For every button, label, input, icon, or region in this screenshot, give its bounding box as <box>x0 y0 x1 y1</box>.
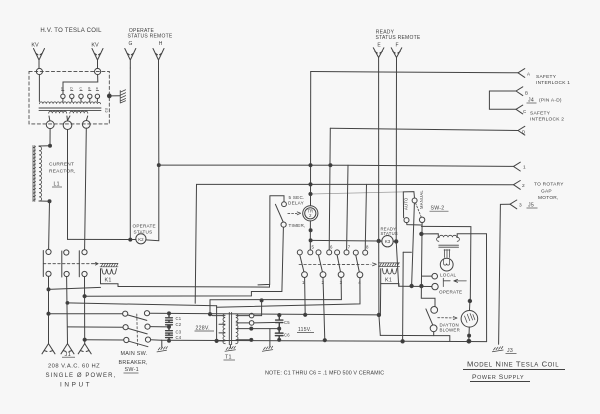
capacitor C4 <box>166 335 173 341</box>
antenna F <box>391 48 402 58</box>
selector arrow <box>454 279 467 282</box>
node F rail <box>401 340 404 343</box>
svg-text:STATUS REMOTE: STATUS REMOTE <box>375 35 420 41</box>
node C5 C6 mid <box>278 327 281 330</box>
node phase2 P2 <box>66 302 69 305</box>
svg-text:1: 1 <box>523 165 526 171</box>
wire contact1 common down <box>304 278 307 315</box>
bushing insulator left <box>36 68 42 74</box>
capacitor C3 <box>166 327 173 335</box>
svg-text:3: 3 <box>519 203 522 209</box>
wire H down to line1 junction <box>158 68 160 165</box>
svg-text:J4: J4 <box>528 98 534 104</box>
contact K1 pole3 top <box>82 250 87 255</box>
wire pole1 bottom down <box>48 276 50 343</box>
timer contact bottom <box>281 222 286 227</box>
wire sw2 feed <box>311 192 404 194</box>
wire local to sw2 node <box>422 275 432 277</box>
switch SW-2 manual contact <box>419 217 424 222</box>
svg-text:STATUS: STATUS <box>381 231 398 236</box>
wire TR2 bottom to contact5 <box>309 221 311 250</box>
node 115V on P1 <box>260 299 263 302</box>
capacitor C2 <box>166 322 173 327</box>
feedthrough terminal 2 <box>63 121 72 130</box>
wire manual common down <box>420 223 423 286</box>
contact block pole1 common <box>302 272 308 278</box>
svg-text:CURRENT: CURRENT <box>49 162 74 168</box>
node cap C1 top <box>168 312 171 315</box>
svg-text:G: G <box>129 41 133 47</box>
wire SW1 pole2 to caps <box>150 326 169 328</box>
timer relay TR2 inner <box>305 208 316 219</box>
ground stub caps <box>161 340 163 347</box>
svg-text:INTERLOCK 2: INTERLOCK 2 <box>530 117 564 123</box>
T1 primary tap bottom <box>217 340 225 342</box>
core ground dot on enclosure <box>107 94 111 98</box>
capacitor C1 <box>166 313 173 322</box>
tap circle 1 <box>61 94 65 101</box>
motor hatching <box>465 314 475 323</box>
node K3 F <box>395 240 398 243</box>
relay coil K3 ready status <box>382 236 393 247</box>
chassis ground wall <box>120 90 125 103</box>
node pole1 lower <box>47 288 50 291</box>
node motor rail <box>467 339 471 343</box>
wire reactor bottom to junction <box>39 200 50 202</box>
svg-text:SINGLE Ø POWER,: SINGLE Ø POWER, <box>46 373 117 379</box>
tap letter ticks <box>62 90 99 92</box>
svg-text:SAFETY: SAFETY <box>536 74 557 80</box>
svg-text:H.V. TO TESLA COIL: H.V. TO TESLA COIL <box>40 28 102 34</box>
wire E down <box>379 58 381 336</box>
secondary lead left <box>48 116 51 121</box>
wire SW1 pole3 to rail bottom <box>151 339 162 342</box>
wire P1 rail riser <box>209 300 211 314</box>
contact block pole4 top right <box>363 250 368 255</box>
svg-text:A: A <box>527 72 530 77</box>
svg-text:AUTO: AUTO <box>404 197 409 210</box>
connector pin 2 <box>514 181 521 190</box>
wire SW1 pole1 to rail <box>150 312 169 314</box>
svg-text:H: H <box>159 41 163 47</box>
wire A line <box>311 72 518 73</box>
switch SW-2 pole contact <box>412 198 417 203</box>
pilot lamp filament <box>444 259 450 265</box>
node phase3 P3 <box>83 295 86 298</box>
connector J1 pin2 <box>61 344 74 354</box>
svg-text:KV: KV <box>31 43 39 49</box>
svg-text:INTERLOCK 1: INTERLOCK 1 <box>536 80 570 86</box>
wire phase2 to SW1 pole2 <box>68 326 124 328</box>
wire B C jumper <box>489 91 516 109</box>
tap circle 4 <box>88 94 92 101</box>
wire line2 to chevron2 <box>197 183 514 185</box>
svg-text:K1: K1 <box>385 278 392 284</box>
node motor top link <box>468 299 471 302</box>
wire P2 pole2 to T1 <box>67 303 216 306</box>
relay coil K2 operate status <box>136 234 146 244</box>
feedthrough terminal 3 <box>82 121 90 129</box>
actuator arrow K1 left <box>93 262 98 265</box>
wire T1 drop to rail <box>216 306 218 341</box>
svg-text:DELAY: DELAY <box>288 201 304 206</box>
svg-text:E: E <box>61 87 63 91</box>
wire sec1 to 115V riser <box>254 301 262 316</box>
switch SW-1 gang dashed <box>136 314 139 346</box>
antenna KV right <box>92 49 103 69</box>
contact K1 pole1 bar <box>42 251 44 277</box>
T1 ground stub <box>229 345 231 348</box>
node reactor top <box>49 144 52 147</box>
svg-text:115V.: 115V. <box>298 327 312 333</box>
wire node to K1 left box <box>49 287 101 289</box>
wire P2 branch to contact4 <box>217 278 360 308</box>
T1 secondary tap3 <box>236 328 251 330</box>
wire phase1 down to K1 contact <box>48 201 51 249</box>
dayton blower motor <box>461 311 478 328</box>
node cap mid junction <box>168 325 171 328</box>
tap circle 5 <box>95 94 99 101</box>
svg-text:STATUS REMOTE: STATUS REMOTE <box>127 34 172 40</box>
wire K1 left box to timer riser <box>118 286 270 289</box>
svg-text:INPUT: INPUT <box>60 382 92 389</box>
connector J1 pin1 <box>42 344 55 354</box>
node reactor bottom <box>48 200 51 203</box>
T1 secondary tap1 <box>236 315 249 317</box>
wire blower bottom stub <box>433 332 435 336</box>
tap circle 2 <box>70 94 74 101</box>
wire big vertical from line2 <box>195 184 196 303</box>
current reactor L1 core <box>33 146 36 202</box>
switch SW-2 auto contact <box>404 218 409 223</box>
blower switch blade <box>426 309 433 325</box>
switch SW-1 pole1 <box>123 311 150 321</box>
feedthrough terminal 1 <box>46 121 54 129</box>
svg-text:GAP: GAP <box>541 189 552 195</box>
svg-text:J5: J5 <box>528 203 534 209</box>
wire T2 primary left lead <box>421 234 438 238</box>
wire rail 313 to T1 <box>169 313 379 315</box>
svg-text:B: B <box>88 87 90 91</box>
relay K1 right coil <box>382 268 397 274</box>
connector pin B <box>516 87 523 96</box>
wire terminal1 to reactor junction <box>49 129 51 146</box>
wire operate node to blower switch <box>421 286 435 306</box>
svg-text:MOTOR,: MOTOR, <box>538 195 559 201</box>
wire contact7 drop <box>347 165 348 250</box>
timer bracket <box>258 196 284 285</box>
transformer T1 core <box>229 312 231 344</box>
node phase1 rail <box>47 312 50 315</box>
contact block pole2 common <box>320 272 326 278</box>
svg-text:E2: E2 <box>104 108 108 113</box>
connector pin 3 <box>510 200 517 209</box>
contact block pole3 common <box>338 272 344 278</box>
wire timer riser join <box>269 284 271 287</box>
blower switch top contact <box>431 307 438 314</box>
wire F down <box>396 58 399 287</box>
contact block pole3 top left <box>335 250 340 255</box>
svg-text:SAFETY: SAFETY <box>530 111 551 117</box>
svg-text:C5: C5 <box>284 320 290 325</box>
timer relay TR2 outer <box>303 206 318 221</box>
contact block pole3 top right <box>344 250 349 255</box>
svg-text:BREAKER,: BREAKER, <box>119 360 149 366</box>
contact block pole1 top left <box>297 250 302 255</box>
antenna G <box>125 49 136 69</box>
wire junction to reactor top <box>39 145 50 147</box>
svg-text:2: 2 <box>522 183 525 189</box>
T1 secondary tap2 <box>236 322 249 324</box>
timer arrowhead <box>297 212 300 215</box>
svg-text:C3: C3 <box>176 330 182 335</box>
node rail contact1 <box>304 313 307 316</box>
wire auto common link <box>407 223 422 225</box>
node contact2 rail <box>323 339 326 342</box>
node C5 rail top <box>278 314 281 317</box>
svg-text:TO ROTARY: TO ROTARY <box>534 182 564 188</box>
svg-text:B: B <box>525 91 528 96</box>
svg-text:SW-2: SW-2 <box>431 206 445 212</box>
relay K1 left coil <box>102 269 117 275</box>
wire motor top lead <box>469 301 471 311</box>
antenna H <box>153 49 164 69</box>
timer contact top <box>282 202 287 207</box>
wire K2 to H riser <box>146 165 159 241</box>
ground under T1 <box>225 346 236 351</box>
wire link k1r aux <box>403 251 411 253</box>
svg-text:C2: C2 <box>176 322 182 327</box>
relay K1 left box <box>101 269 119 287</box>
wire sw2 auto drop <box>402 192 404 218</box>
contact block pole4 blade <box>356 255 360 272</box>
connector J1 pin3 <box>78 344 91 354</box>
wire aux drop to rail341 <box>402 252 405 341</box>
wire P3 phase3 to timer <box>85 227 284 296</box>
svg-text:5 SEC.: 5 SEC. <box>289 195 305 200</box>
svg-text:SW-1: SW-1 <box>125 367 139 373</box>
transformer T1 secondary winding <box>236 314 238 344</box>
node operate rail b <box>420 284 423 287</box>
wire T2 primary right lead <box>457 234 486 342</box>
contact block pole3 blade <box>337 255 340 272</box>
contact block pole2 blade <box>319 255 323 272</box>
wire K3 to F <box>393 240 396 242</box>
fuse terminal sec1 <box>249 313 254 318</box>
fuse terminal sec2 <box>249 321 254 326</box>
connector pin 1 <box>514 162 521 171</box>
blower dashed link <box>438 317 454 319</box>
node operate rail a <box>410 284 413 287</box>
timer blade <box>275 204 283 222</box>
selector bar <box>443 278 450 286</box>
ground stub secondary <box>269 329 271 347</box>
svg-text:NOTE: C1 THRU C6 = .1 MFD 500: NOTE: C1 THRU C6 = .1 MFD 500 V CERAMIC <box>265 371 384 377</box>
antenna KV left <box>34 49 45 69</box>
svg-text:C4: C4 <box>176 335 182 340</box>
contact K1 pole2 bar <box>61 251 63 277</box>
svg-text:F: F <box>395 43 398 49</box>
svg-text:STATUS: STATUS <box>134 230 153 235</box>
blower switch bottom contact <box>430 325 437 332</box>
transformer T2b primary winding <box>437 235 460 241</box>
connector pin A <box>518 69 525 78</box>
node D line1 <box>329 164 332 167</box>
contact block pole2 top right <box>327 250 332 255</box>
ground under secondary <box>262 346 273 351</box>
node sec4 rail <box>250 338 253 341</box>
transformer T2 secondary winding right <box>70 111 88 113</box>
node A line2 <box>309 183 312 186</box>
contact block pole2 top left <box>316 250 321 255</box>
svg-text:POWER SUPPLY: POWER SUPPLY <box>472 374 524 381</box>
actuator dashed link contact block <box>299 263 371 265</box>
transformer T1 primary winding <box>223 314 225 344</box>
svg-text:K2: K2 <box>138 237 144 242</box>
secondary lead right <box>86 116 87 120</box>
transformer T2b core <box>439 245 459 247</box>
svg-text:T1: T1 <box>225 355 232 361</box>
svg-text:LOCAL: LOCAL <box>440 273 457 278</box>
wire pin3 to ground <box>499 204 510 344</box>
contact K1 pole2 bottom <box>64 271 69 276</box>
connector pin C <box>516 105 523 114</box>
T1 secondary tap4 <box>236 339 251 341</box>
node G junction <box>129 238 132 241</box>
wire rail 228V upper <box>49 313 123 315</box>
node A line1 <box>309 164 312 167</box>
wire pole2 bottom down <box>66 277 69 344</box>
tap circle 3 <box>79 94 83 101</box>
T1 primary tap top <box>210 314 225 316</box>
wire operate rail <box>399 285 432 287</box>
wire G down to K2 line <box>129 68 131 240</box>
wire E to K3 <box>379 240 382 242</box>
transformer T2 primary winding <box>40 102 101 104</box>
wire contact2 common down <box>323 278 325 341</box>
ground under caps <box>157 347 167 352</box>
wire K1 right left pin <box>379 284 381 315</box>
wire phase3 to SW1 pole3 <box>85 339 124 341</box>
svg-text:K3: K3 <box>385 239 391 244</box>
node T1 primary top <box>208 313 211 316</box>
secondary lead middle <box>67 116 70 121</box>
node T1 primary bottom <box>215 339 218 342</box>
capacitor C5 <box>276 315 283 329</box>
ground J3 <box>492 347 503 352</box>
wire bushing left to primary <box>38 75 40 102</box>
transformer T2 core <box>39 108 101 110</box>
contact K1 pole3 bar <box>78 251 80 277</box>
wire to chassis ground <box>111 95 121 97</box>
contact block pole4 common <box>357 272 363 278</box>
wire motor bottom lead <box>468 327 471 341</box>
contact K1 pole3 bottom <box>82 271 87 276</box>
svg-text:208 V.A.C. 60 HZ: 208 V.A.C. 60 HZ <box>48 364 100 370</box>
wire A drop to TR2 <box>310 72 312 206</box>
contact block pole4 top left <box>353 250 358 255</box>
wire D line <box>330 128 518 130</box>
svg-text:OPERATE: OPERATE <box>133 224 156 229</box>
wire sec3 to C5C6 mid <box>251 328 279 330</box>
node C6 bottom rail <box>278 338 281 341</box>
wire terminal3 down to contact3 <box>85 128 87 249</box>
transformer T2 secondary winding left <box>49 111 67 113</box>
svg-text:C6: C6 <box>284 333 290 338</box>
contact block pole1 blade <box>300 255 304 272</box>
svg-text:BLOWER: BLOWER <box>440 328 461 333</box>
wire rail 341 long <box>162 340 487 341</box>
svg-text:K1: K1 <box>105 278 112 284</box>
switch SW-2 bracket <box>403 192 414 198</box>
wire P1 to contact3 <box>210 278 341 300</box>
wire K2 line <box>68 238 136 240</box>
node phase3 sw1 <box>83 338 86 341</box>
node K3 E <box>377 239 380 242</box>
svg-text:MAIN SW.: MAIN SW. <box>121 351 148 357</box>
svg-text:MANUAL: MANUAL <box>419 190 424 209</box>
node TR2 lower1 <box>309 229 312 232</box>
blower arrowhead <box>453 317 457 320</box>
svg-text:228V.: 228V. <box>196 326 210 332</box>
antenna E <box>373 48 384 58</box>
svg-text:OPERATE: OPERATE <box>439 290 462 295</box>
T1 primary tap 3 <box>219 332 225 334</box>
node TR2 lower2 <box>309 239 312 242</box>
svg-text:C1: C1 <box>176 316 182 321</box>
svg-text:TIMER,: TIMER, <box>289 223 306 228</box>
switch local contact <box>432 273 438 279</box>
pilot lamp <box>440 258 453 271</box>
svg-text:J3: J3 <box>507 348 513 354</box>
contact K1 pole1 bottom <box>46 271 51 276</box>
lamp secondary winding <box>444 250 450 258</box>
wire sw2 slope to operate rail <box>412 203 415 286</box>
wire E neutral to blower <box>380 335 450 341</box>
svg-text:REACTOR,: REACTOR, <box>49 169 76 175</box>
relay K1 right box <box>381 269 399 287</box>
node H line1 junction <box>157 164 160 167</box>
actuator arrow K1 right <box>373 263 377 266</box>
contact K1 pole2 top <box>64 250 69 255</box>
actuator dashed link K1 left <box>43 263 93 265</box>
switch SW-1 pole2 <box>123 324 150 334</box>
node A sw2 feed <box>309 192 312 195</box>
current reactor L1 winding <box>39 147 42 202</box>
node sec3 <box>250 327 253 330</box>
relay K1 right armature bar <box>379 263 400 267</box>
contact block pole1 top right <box>308 250 313 255</box>
wire motor feed top <box>421 226 471 301</box>
wire bushing right to tap B <box>63 75 98 94</box>
node motor lead kink <box>468 334 471 337</box>
connector pin D <box>518 126 525 135</box>
wire terminal2 down to K2 node <box>67 130 69 240</box>
contact K1 pole1 top <box>46 249 51 254</box>
transformer T2 dashed enclosure <box>29 71 109 124</box>
bushing insulator right <box>95 68 101 74</box>
T1 primary tap 2 <box>219 323 225 325</box>
wire D drop to contact6 <box>329 128 330 250</box>
switch SW-1 pole3 <box>124 337 151 347</box>
switch operate contact <box>432 283 438 289</box>
svg-text:L1: L1 <box>54 182 60 188</box>
svg-text:(PIN A-D): (PIN A-D) <box>539 98 562 104</box>
wire contact8 drop <box>365 184 366 250</box>
node T2 primary left <box>420 232 423 235</box>
wire TR2 node to K3 E node <box>311 239 379 242</box>
switch SW-2 dashed blade <box>416 203 422 217</box>
